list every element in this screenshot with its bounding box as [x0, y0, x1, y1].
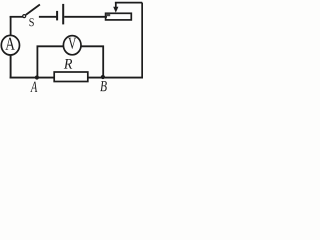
rheostat slider arrow stem — [115, 2, 117, 7]
wire node-A branch vertical — [36, 46, 38, 78]
battery long plate (positive) — [62, 4, 64, 25]
label A (ammeter) — [5, 38, 15, 50]
switch S blade — [26, 5, 40, 15]
label node B — [100, 81, 107, 91]
voltmeter circle — [63, 36, 81, 55]
rheostat slider contact smudge — [106, 14, 110, 17]
label V (voltmeter) — [68, 38, 76, 49]
wire voltmeter branch right — [81, 45, 104, 47]
resistor R box — [54, 72, 88, 82]
wire bottom — [10, 77, 143, 79]
rheostat box — [106, 13, 132, 20]
wire top right — [115, 2, 142, 4]
wire top-left stub — [10, 16, 23, 18]
wire left vertical lower — [10, 55, 12, 79]
ammeter circle — [1, 35, 19, 55]
wire right vertical — [141, 3, 143, 78]
label S (switch) — [29, 18, 33, 26]
junction node A dot — [35, 75, 39, 79]
wire voltmeter branch left — [37, 45, 64, 47]
battery short plate (negative) — [56, 11, 58, 21]
wire left vertical upper — [10, 16, 12, 36]
label R (resistor) — [64, 59, 72, 69]
label node A — [30, 82, 37, 92]
switch S pivot circle — [23, 15, 26, 18]
wire switch to battery — [39, 16, 57, 18]
rheostat slider arrowhead — [113, 7, 118, 13]
wire battery to rheostat — [64, 16, 107, 18]
wire node-B branch vertical — [102, 46, 104, 78]
junction node B dot — [101, 75, 105, 79]
